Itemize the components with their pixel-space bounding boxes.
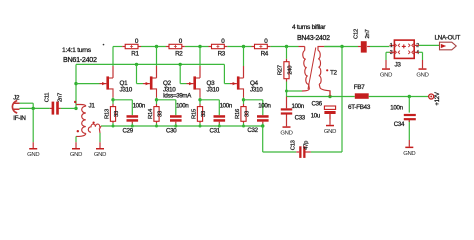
svg-text:R13: R13 <box>104 108 110 119</box>
svg-text:T2: T2 <box>330 69 338 76</box>
svg-text:C36: C36 <box>312 100 323 107</box>
svg-text:C12: C12 <box>354 29 360 39</box>
svg-text:GND: GND <box>94 152 106 158</box>
svg-text:3: 3 <box>390 50 393 56</box>
svg-text:J310: J310 <box>120 86 133 93</box>
svg-text:FB7: FB7 <box>354 84 365 91</box>
svg-text:BN61-2402: BN61-2402 <box>63 55 97 64</box>
svg-text:J1: J1 <box>89 103 96 110</box>
svg-text:10u: 10u <box>311 113 320 120</box>
svg-text:33: 33 <box>114 110 120 117</box>
svg-text:100n: 100n <box>390 105 402 112</box>
svg-text:J2: J2 <box>13 95 20 102</box>
svg-text:33: 33 <box>158 110 164 117</box>
svg-text:R4: R4 <box>261 50 269 57</box>
svg-text:GND: GND <box>324 129 336 135</box>
svg-text:J310: J310 <box>207 86 220 93</box>
svg-text:4 turns bifilar: 4 turns bifilar <box>292 24 326 31</box>
svg-text:100n: 100n <box>220 103 232 110</box>
svg-text:C29: C29 <box>123 127 134 134</box>
svg-text:C33: C33 <box>295 115 306 122</box>
svg-text:R15: R15 <box>191 108 197 119</box>
svg-text:GND: GND <box>280 131 292 137</box>
svg-text:LNA-OUT: LNA-OUT <box>435 34 461 41</box>
svg-text:C32: C32 <box>247 127 258 134</box>
svg-text:GND: GND <box>380 73 392 79</box>
svg-text:4: 4 <box>416 50 419 56</box>
svg-text:+12V: +12V <box>434 91 441 105</box>
svg-text:2: 2 <box>416 43 419 49</box>
svg-text:1: 1 <box>390 43 393 49</box>
svg-text:33: 33 <box>245 110 251 117</box>
svg-text:2n7: 2n7 <box>58 93 64 102</box>
svg-text:GND: GND <box>27 152 39 158</box>
svg-text:GND: GND <box>403 151 415 157</box>
svg-text:R16: R16 <box>235 108 241 119</box>
svg-text:Idss=39mA: Idss=39mA <box>163 92 192 99</box>
svg-text:R3: R3 <box>218 50 226 57</box>
svg-text:R2: R2 <box>175 50 183 57</box>
svg-text:1:4:1 turns: 1:4:1 turns <box>62 47 92 54</box>
svg-text:100n: 100n <box>133 103 145 110</box>
svg-text:33: 33 <box>201 110 207 117</box>
svg-text:GND: GND <box>416 73 428 79</box>
svg-text:100n: 100n <box>258 103 270 110</box>
svg-text:100n: 100n <box>176 103 188 110</box>
svg-text:J310: J310 <box>250 86 263 93</box>
svg-text:C30: C30 <box>166 127 177 134</box>
svg-text:C34: C34 <box>394 121 405 128</box>
svg-text:IF-IN: IF-IN <box>13 115 26 122</box>
svg-text:C13: C13 <box>291 139 297 150</box>
svg-text:2n7: 2n7 <box>365 30 371 39</box>
svg-text:240: 240 <box>288 65 294 75</box>
svg-text:C11: C11 <box>45 93 51 102</box>
svg-text:R1: R1 <box>131 50 139 57</box>
svg-text:GND: GND <box>70 152 82 158</box>
svg-text:R27: R27 <box>277 65 283 75</box>
svg-text:BN43-2402: BN43-2402 <box>297 35 330 42</box>
svg-text:100n: 100n <box>292 103 304 110</box>
svg-text:C31: C31 <box>210 127 221 134</box>
svg-text:R14: R14 <box>148 108 154 119</box>
svg-text:J3: J3 <box>395 61 402 68</box>
svg-text:6T-FB43: 6T-FB43 <box>348 104 371 111</box>
svg-text:47p: 47p <box>304 140 310 150</box>
